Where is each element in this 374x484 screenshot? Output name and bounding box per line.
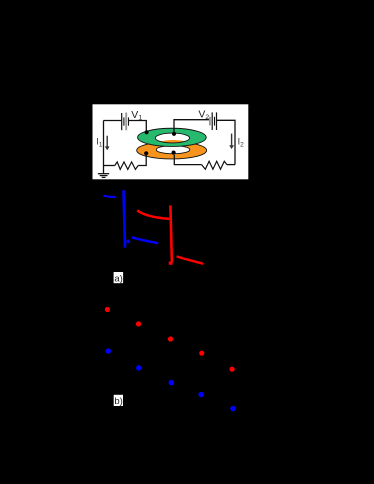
plot a: blue marker after jump: [127, 240, 130, 244]
plot b: red data point 2: [136, 321, 141, 326]
node orange-left: [144, 151, 148, 155]
coil L1 green ring outer: [138, 128, 207, 146]
plot b: blue data point 5: [230, 406, 236, 412]
green ring hole outline: [155, 133, 189, 143]
plot b: red data point 3: [168, 336, 173, 341]
battery V1 plate long gray: [125, 113, 127, 131]
wire battery V1 to green ring: [129, 121, 147, 132]
battery V1 plate short: [123, 117, 125, 125]
battery V2 plate long 2: [216, 112, 218, 130]
plot a: blue jump line: [124, 190, 126, 247]
plot b: red data point 5: [230, 367, 235, 372]
resistor R1: [115, 162, 138, 170]
plot a: red jump line: [170, 205, 172, 262]
label a): [114, 272, 124, 283]
node green-center: [172, 132, 176, 136]
plot b: blue data point 3: [169, 380, 175, 386]
plot a: red curve upper branch: [137, 210, 169, 218]
plot b: red data point 1: [105, 307, 110, 312]
plot a: red curve lower branch: [177, 256, 204, 263]
node orange-center: [172, 151, 176, 155]
plot a: blue curve upper branch: [103, 195, 116, 197]
wire battery V2 to right side down: [217, 120, 236, 164]
svg-text:a): a): [114, 273, 122, 284]
coil L2 orange ring hole: [156, 146, 190, 154]
plot b: red data point 4: [199, 351, 204, 356]
node green-left: [145, 130, 149, 134]
battery V2 plate short 2: [214, 117, 216, 126]
battery V2 plate long: [211, 112, 213, 130]
plot a: red jump foot: [169, 262, 173, 265]
current arrow I1: [106, 136, 108, 147]
wire resistor R1 to orange ring: [138, 155, 146, 166]
wire bottom-right to resistor R2: [227, 164, 235, 166]
battery V1 plate short 2: [128, 117, 130, 125]
plot b: blue data point 2: [136, 365, 142, 371]
plot b: blue data point 4: [198, 392, 204, 398]
ground: [103, 166, 105, 174]
battery V1 plate long: [121, 113, 123, 130]
wire bottom-left to resistor R1: [104, 165, 115, 167]
plot a: blue curve lower branch: [132, 237, 158, 243]
wire green ring center to battery V2: [174, 120, 210, 134]
wire resistor R2 to orange ring center: [174, 155, 201, 165]
resistor R2: [202, 161, 227, 169]
coil L2 orange ring outer: [137, 142, 207, 159]
label b): [114, 395, 123, 406]
svg-text:b): b): [114, 396, 122, 407]
wire left vertical: [103, 121, 105, 166]
schematic white background panel: [93, 104, 249, 179]
battery V2 plate short gray: [209, 117, 211, 126]
orange sliver seen through green hole: [160, 140, 186, 144]
current arrow I2: [231, 134, 233, 146]
wire top-left from node to battery V1: [104, 120, 122, 122]
plot b: blue data point 1: [106, 348, 112, 354]
